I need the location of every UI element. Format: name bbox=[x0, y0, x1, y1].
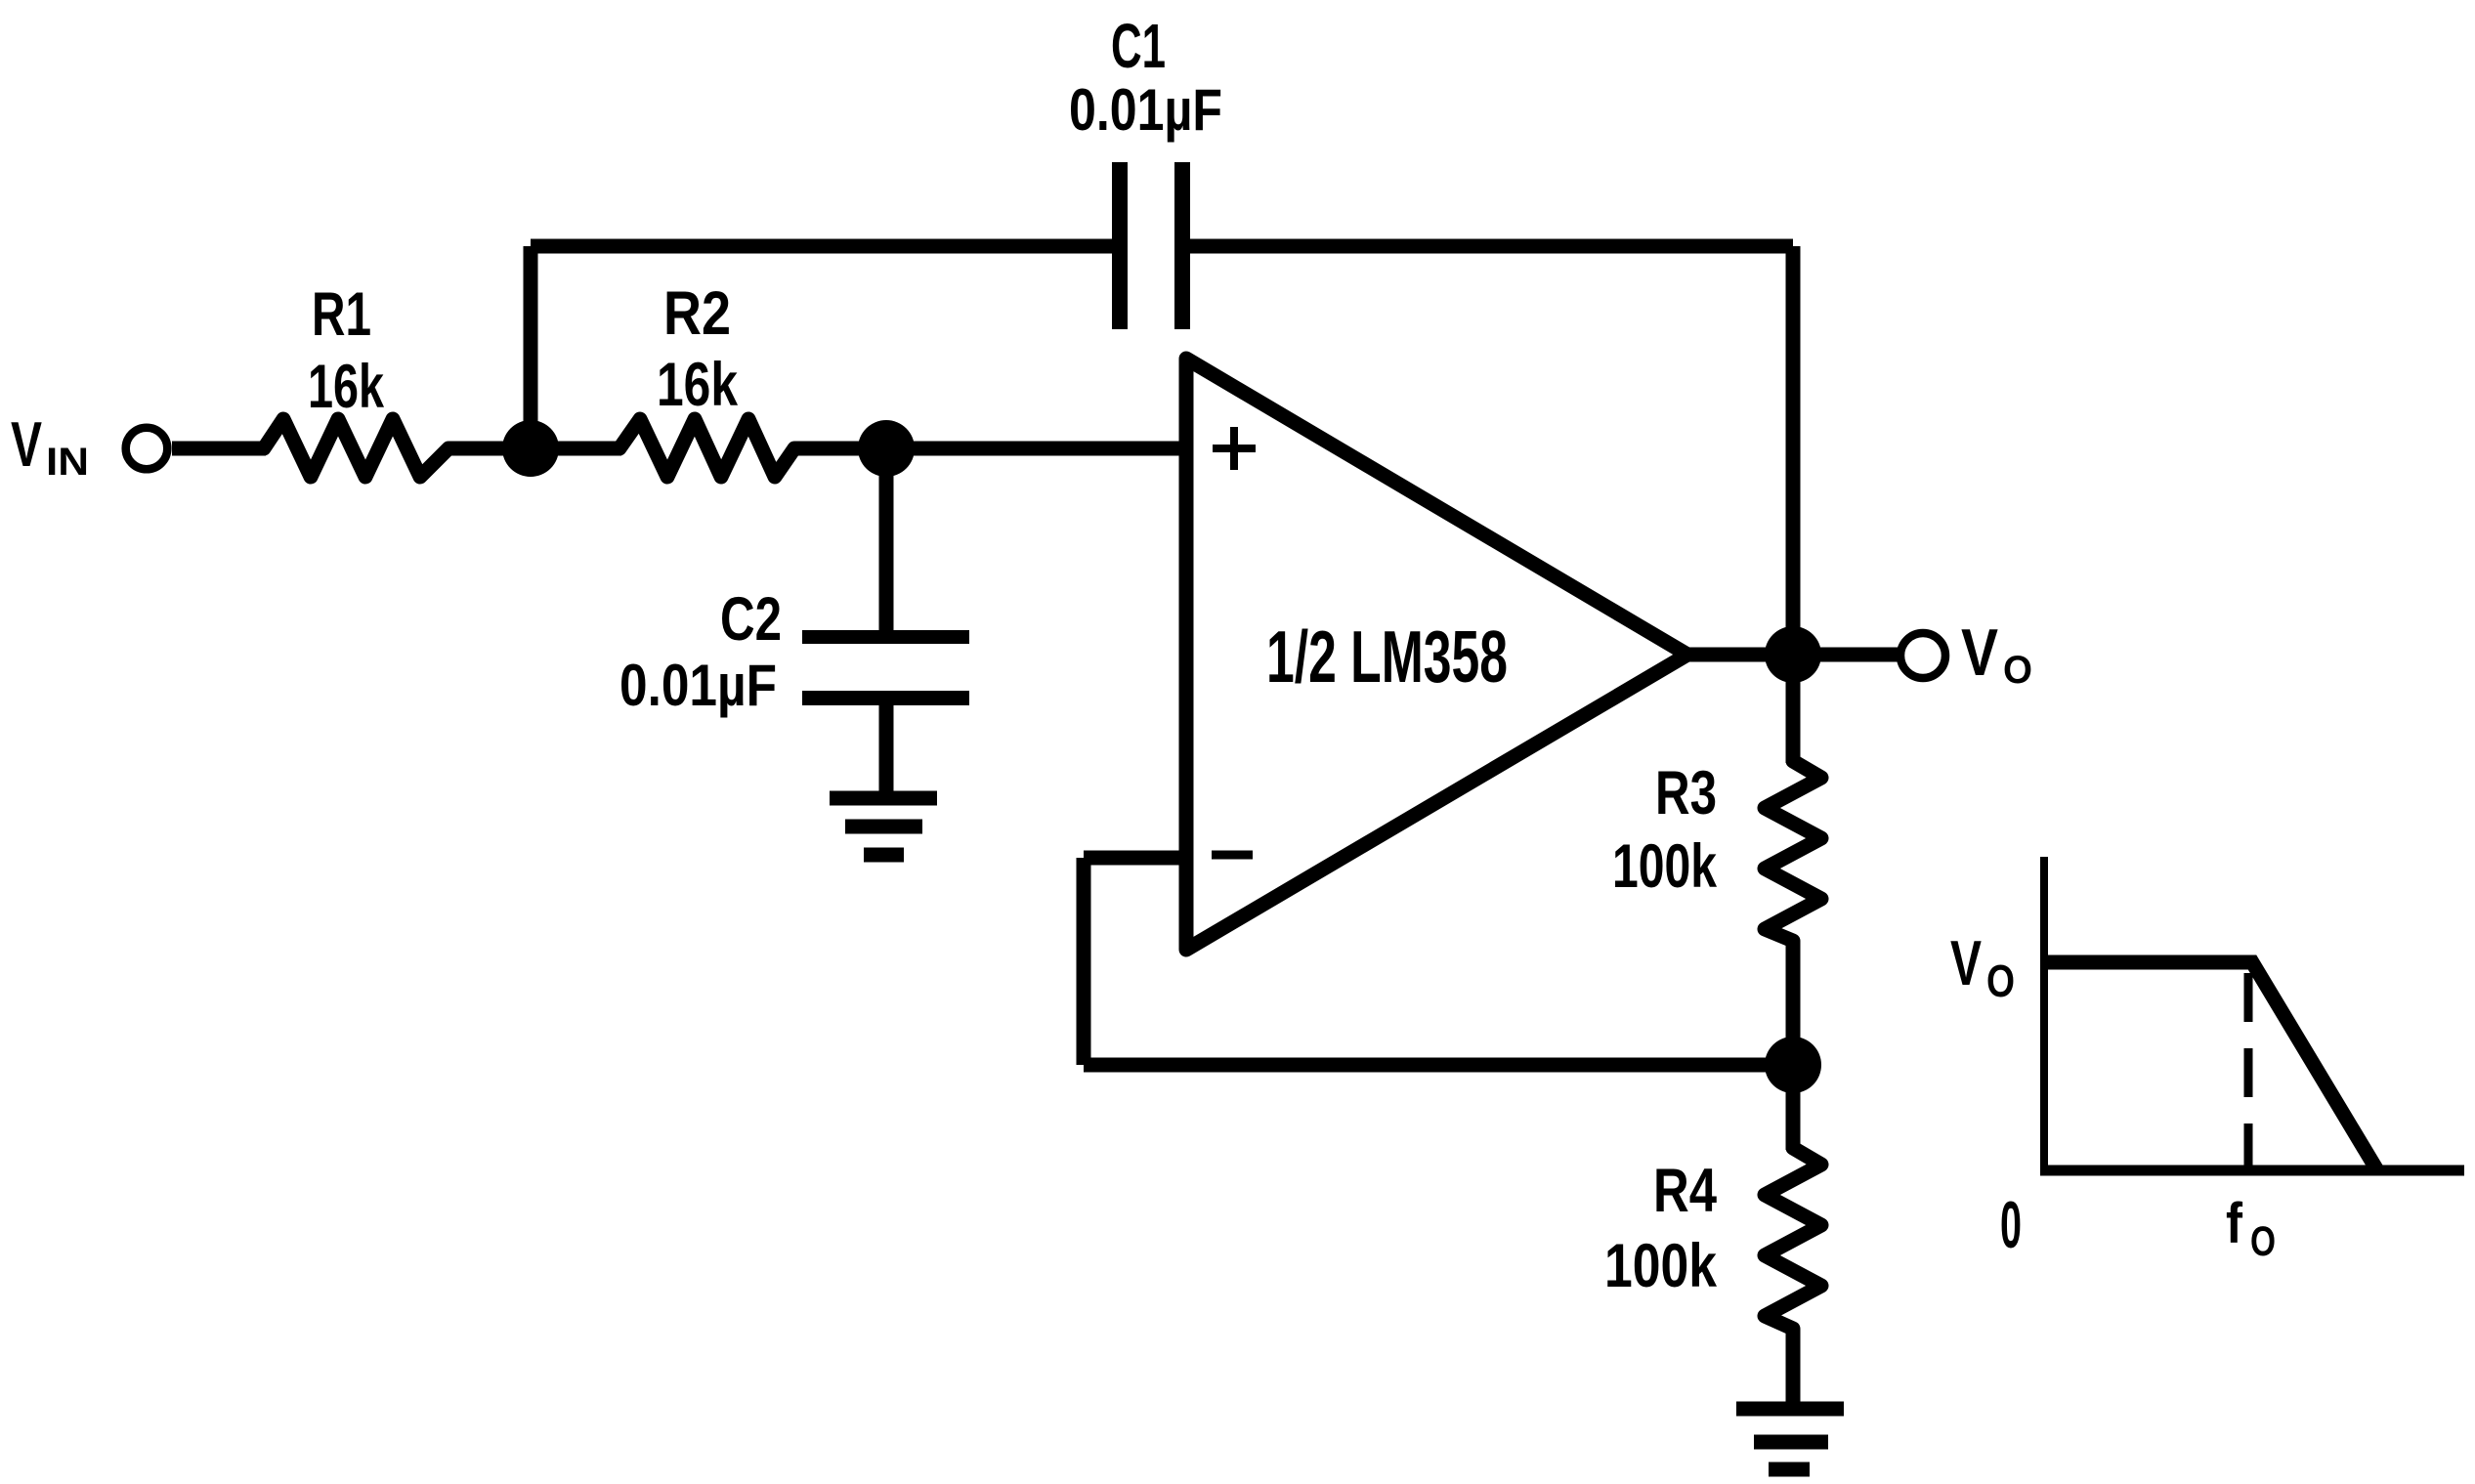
node VIN label bbox=[11, 408, 89, 484]
wire C2 to ground bbox=[879, 705, 894, 793]
graph x-axis bbox=[2040, 1166, 2464, 1176]
wire VIN to R1 bbox=[172, 442, 266, 456]
wire node A to R2 bbox=[531, 442, 621, 456]
svg-text:100k: 100k bbox=[1612, 832, 1718, 901]
svg-text:O: O bbox=[2003, 649, 2032, 692]
svg-text:R4: R4 bbox=[1653, 1157, 1717, 1225]
wire - input down bbox=[1077, 858, 1091, 1065]
label VO graph bbox=[1950, 927, 2015, 1006]
graph dashed line at f0 bbox=[2244, 973, 2253, 1170]
svg-text:C1: C1 bbox=[1111, 11, 1166, 81]
svg-text:16k: 16k bbox=[308, 353, 385, 421]
svg-text:100k: 100k bbox=[1604, 1232, 1718, 1300]
wire output node down to R3 bbox=[1786, 655, 1801, 763]
wire R1 to node A bbox=[448, 442, 531, 456]
label R3 bbox=[1612, 759, 1718, 901]
op-amp - input symbol bbox=[1212, 851, 1253, 860]
label R1 bbox=[308, 280, 385, 421]
resistor R4 bbox=[1765, 1148, 1821, 1329]
graph y-axis bbox=[2040, 857, 2048, 1170]
capacitor C1 bbox=[1112, 162, 1190, 329]
svg-text:O: O bbox=[1986, 955, 2015, 1006]
wire R2 to node B and to op-amp + input bbox=[794, 442, 1184, 456]
graph response curve bbox=[2044, 962, 2377, 1170]
node D junction dot bbox=[1765, 1037, 1821, 1093]
svg-text:16k: 16k bbox=[657, 351, 739, 419]
svg-text:R2: R2 bbox=[663, 279, 731, 348]
svg-text:IN: IN bbox=[46, 441, 89, 484]
ground below R4 bbox=[1736, 1409, 1844, 1469]
wire R3 to node D bbox=[1786, 941, 1801, 1065]
node A junction dot bbox=[502, 420, 559, 477]
wire op-amp output bbox=[1679, 648, 1899, 662]
wire R4 to ground bbox=[1786, 1329, 1801, 1404]
wire - input stub bbox=[1084, 851, 1185, 866]
svg-text:1/2 LM358: 1/2 LM358 bbox=[1266, 615, 1508, 698]
svg-text:0: 0 bbox=[2000, 1188, 2022, 1262]
label VO output bbox=[1961, 615, 2032, 692]
wire feedback top from node A to C1 bbox=[531, 239, 1112, 254]
node B junction dot bbox=[858, 420, 915, 477]
resistor R1 bbox=[264, 419, 448, 477]
label C2 bbox=[619, 585, 782, 718]
label R2 bbox=[657, 279, 739, 419]
svg-text:O: O bbox=[2250, 1218, 2276, 1265]
svg-text:V: V bbox=[1950, 927, 1982, 998]
terminal VO bbox=[1900, 633, 1945, 678]
op-amp U1 triangle bbox=[1186, 359, 1687, 950]
svg-text:0.01µF: 0.01µF bbox=[619, 653, 777, 718]
wire feedback down to output node bbox=[1786, 246, 1801, 655]
label C1 bbox=[1069, 11, 1222, 143]
node C output junction dot bbox=[1765, 626, 1821, 683]
wire node D to R4 bbox=[1786, 1065, 1801, 1150]
resistor R3 bbox=[1765, 761, 1821, 941]
wire C1 to right corner bbox=[1190, 239, 1793, 254]
label R4 bbox=[1604, 1157, 1718, 1300]
svg-text:R3: R3 bbox=[1655, 759, 1717, 827]
wire feedback bottom to node D bbox=[1084, 1058, 1793, 1073]
ground below C2 bbox=[830, 798, 937, 855]
svg-text:V: V bbox=[1961, 615, 1998, 690]
capacitor C2 bbox=[802, 630, 969, 705]
svg-text:R1: R1 bbox=[312, 280, 371, 349]
op-amp + input symbol bbox=[1213, 427, 1256, 470]
wire node A up to feedback bbox=[524, 246, 538, 448]
wire node B down to C2 bbox=[879, 448, 894, 632]
resistor R2 bbox=[619, 419, 794, 477]
label f0 bbox=[2226, 1192, 2276, 1265]
svg-text:f: f bbox=[2226, 1192, 2243, 1255]
svg-text:0.01µF: 0.01µF bbox=[1069, 77, 1222, 143]
svg-text:V: V bbox=[11, 408, 42, 480]
svg-text:C2: C2 bbox=[720, 585, 782, 654]
terminal VIN bbox=[126, 428, 168, 470]
